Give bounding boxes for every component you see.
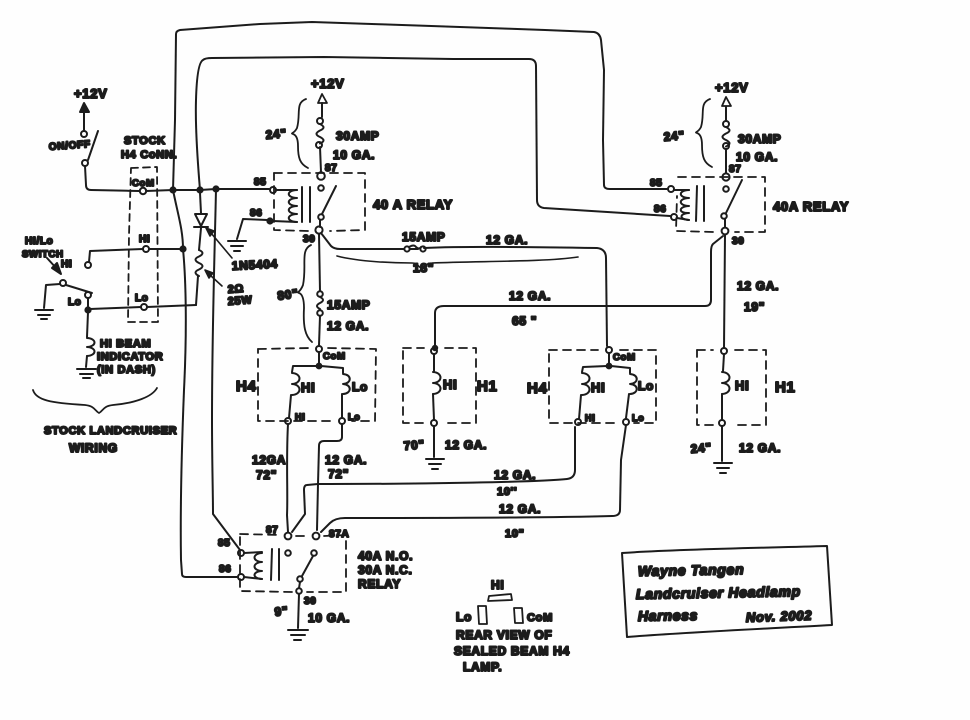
svg-text:30AMP: 30AMP xyxy=(336,129,380,143)
80in label xyxy=(276,286,299,303)
+12V supply label (middle) xyxy=(311,76,345,91)
10GA label (middle) xyxy=(333,148,375,162)
40A N.O. label xyxy=(358,549,413,563)
svg-text:Landcruiser Headlamp: Landcruiser Headlamp xyxy=(636,583,801,602)
+12V arrow (middle) xyxy=(318,94,327,117)
15AMP label (80in wire) xyxy=(327,298,371,312)
hi/lo switch label arrow xyxy=(47,258,61,274)
fuse F3 15A inline xyxy=(404,246,425,252)
12GA label (wire C) xyxy=(494,468,536,482)
svg-text:12 GA.: 12 GA. xyxy=(445,438,487,452)
H4 left HI filament xyxy=(289,366,317,418)
wire HI contact to HI terminal xyxy=(89,249,143,262)
+12V supply label (left) xyxy=(74,86,108,101)
H1 middle filament xyxy=(433,354,457,420)
30A N.C. label xyxy=(358,563,413,577)
relay K3 contacts xyxy=(285,550,317,594)
svg-text:30: 30 xyxy=(303,234,316,245)
relay K3 pin 85 xyxy=(218,538,244,556)
svg-text:85: 85 xyxy=(650,178,663,189)
ground (H1 right) xyxy=(714,463,732,473)
10GA label (K3) xyxy=(308,611,350,625)
svg-text:12GA: 12GA xyxy=(252,453,286,467)
node HI contact xyxy=(85,262,91,268)
node LO contact xyxy=(85,292,91,298)
rear view HI label xyxy=(491,578,504,592)
lamp H4 right dashed box xyxy=(549,350,656,423)
relay K2 40A dashed box xyxy=(676,177,765,232)
relay K3 core bars xyxy=(271,549,279,580)
svg-text:87: 87 xyxy=(325,163,338,174)
relay K2 coil xyxy=(674,190,689,220)
wire K3 30 to ground xyxy=(298,594,299,628)
node junction V2 xyxy=(213,186,218,191)
H4 right LO filament xyxy=(611,366,654,418)
wire 65in (right relay 30 to middle H1) xyxy=(435,236,723,347)
ground (H1 middle) xyxy=(426,459,444,469)
24in label (right) xyxy=(663,128,685,144)
svg-text:30A N.C.: 30A N.C. xyxy=(358,563,413,577)
12GA label (wire D) xyxy=(499,502,541,516)
12GA label (19in wire) xyxy=(737,279,779,293)
svg-text:+12V: +12V xyxy=(74,86,108,101)
fuse F4 15A (80in wire) xyxy=(317,291,323,316)
24in brace (middle) xyxy=(292,99,308,168)
svg-text:Lo: Lo xyxy=(135,293,149,304)
svg-text:CoM: CoM xyxy=(323,351,346,362)
relay K2 pin 30 xyxy=(722,228,745,247)
H1 label (middle) xyxy=(477,378,498,395)
relay K1 pin 86 xyxy=(250,208,273,224)
svg-text:40A RELAY: 40A RELAY xyxy=(773,199,849,214)
wire 15AMP branch (middle 30 to right H4 COM) xyxy=(321,233,607,346)
svg-text:HI: HI xyxy=(591,380,605,395)
node HI junction on V1 xyxy=(180,246,185,251)
relay K2 core bars xyxy=(696,186,704,221)
12GA label (right H1) xyxy=(739,441,781,455)
svg-text:H4: H4 xyxy=(236,378,257,395)
svg-text:87: 87 xyxy=(266,525,279,536)
svg-text:HI: HI xyxy=(491,578,504,592)
svg-text:85: 85 xyxy=(254,177,267,188)
svg-text:40A N.O.: 40A N.O. xyxy=(358,549,413,563)
wire LO junction to LO terminal and resistor xyxy=(90,307,141,309)
svg-text:12 GA.: 12 GA. xyxy=(494,468,536,482)
rear view HI blade xyxy=(488,594,512,601)
on/off label xyxy=(48,139,91,153)
relay K1 pin 85 xyxy=(254,177,276,193)
svg-text:12 GA.: 12 GA. xyxy=(499,502,541,516)
stock H4 conn label xyxy=(121,135,177,161)
svg-text:INDICATOR: INDICATOR xyxy=(97,351,163,363)
19in label xyxy=(744,300,765,314)
hi/lo switch label xyxy=(22,236,64,260)
H4 right HI filament xyxy=(579,366,607,419)
svg-text:10'': 10'' xyxy=(497,486,517,498)
fuse F2 30A (right feed) xyxy=(723,121,730,173)
H1 right filament xyxy=(722,354,749,420)
H4 label (right) xyxy=(527,380,548,397)
H1 label (right) xyxy=(775,379,796,396)
svg-text:+12V: +12V xyxy=(311,76,345,91)
svg-text:24": 24" xyxy=(265,126,287,142)
relay K3 pin 86 xyxy=(219,564,244,580)
svg-text:87A: 87A xyxy=(329,529,349,540)
wire 86 to ground (K1) xyxy=(237,219,267,239)
2ohm arrow xyxy=(205,270,222,286)
12GA label (65in wire) xyxy=(509,289,551,303)
15AMP label (inline fuse) xyxy=(402,230,446,244)
+12V supply label (right) xyxy=(715,80,749,95)
fuse F1 30A (middle feed) xyxy=(316,118,324,172)
svg-text:Harness: Harness xyxy=(638,607,698,624)
svg-text:12 GA.: 12 GA. xyxy=(739,441,781,455)
svg-text:85: 85 xyxy=(218,538,231,549)
node H4 left COM xyxy=(316,346,346,362)
rear view COM label xyxy=(527,612,553,624)
relay K1 pin 30 xyxy=(303,226,323,245)
resistor R1 2ohm 25W xyxy=(196,250,203,305)
svg-text:1N5404: 1N5404 xyxy=(231,257,278,273)
relay K2 pin 86 xyxy=(654,204,677,220)
svg-text:Lo: Lo xyxy=(632,413,644,423)
18in measure line xyxy=(337,256,578,268)
65in label xyxy=(512,314,537,328)
svg-text:STOCK LANDCRUISER: STOCK LANDCRUISER xyxy=(44,425,177,437)
svg-text:65 ": 65 " xyxy=(512,314,537,328)
wire switch pivot to ground xyxy=(44,284,60,308)
svg-text:Lo: Lo xyxy=(456,610,472,624)
wire inner loop (to right relay 86) xyxy=(196,57,670,216)
node junction inner loop / diode xyxy=(197,187,202,192)
svg-text:24": 24" xyxy=(690,440,712,456)
node H1 right bottom pin xyxy=(719,420,725,426)
title date xyxy=(746,608,813,625)
12GA label (15amp wire) xyxy=(486,233,528,247)
ground (dimmer pivot) xyxy=(35,310,53,319)
relay K1 40A dashed box xyxy=(274,173,365,231)
svg-text:CoM: CoM xyxy=(527,612,553,624)
svg-text:WIRING: WIRING xyxy=(69,441,118,455)
hi/lo dimmer switch SW2 xyxy=(60,280,92,293)
title line 1 xyxy=(638,561,745,579)
12GA label (80in wire) xyxy=(327,319,369,333)
svg-text:15AMP: 15AMP xyxy=(402,230,446,244)
relay K1 pin 87 xyxy=(317,163,337,180)
40 A RELAY label xyxy=(373,197,453,212)
svg-text:86: 86 xyxy=(219,564,232,575)
svg-text:19": 19" xyxy=(744,300,765,314)
svg-text:+12V: +12V xyxy=(715,80,749,95)
svg-text:CoM: CoM xyxy=(613,352,636,363)
svg-text:80": 80" xyxy=(276,286,299,303)
COM pin label xyxy=(132,178,155,189)
node H4 right LO pin xyxy=(623,413,644,425)
svg-text:10 GA.: 10 GA. xyxy=(308,611,350,625)
2ohm 25W label xyxy=(227,283,252,308)
svg-text:25W: 25W xyxy=(227,294,252,308)
svg-text:HI: HI xyxy=(585,413,595,423)
H4 left internal junction xyxy=(317,352,322,368)
+12V arrow (right) xyxy=(722,97,731,121)
wire K2 30 down to right H1 xyxy=(724,235,725,348)
12GA label (70in wire) xyxy=(445,438,487,452)
svg-text:15AMP: 15AMP xyxy=(327,298,371,312)
wire D (H4 right LO to 87A) xyxy=(321,425,626,532)
svg-text:H4: H4 xyxy=(527,380,548,397)
svg-text:12 GA.: 12 GA. xyxy=(327,319,369,333)
1N5404 arrow xyxy=(206,228,232,258)
svg-text:12 GA.: 12 GA. xyxy=(486,233,528,247)
lamp H4 left dashed box xyxy=(258,348,376,421)
24in brace (right) xyxy=(696,99,712,167)
RELAY label (K3) xyxy=(358,577,401,591)
LO pin label xyxy=(135,293,149,304)
stock H4 connector dashed box xyxy=(128,167,158,322)
rear view LO label xyxy=(456,610,472,624)
svg-text:40 A RELAY: 40 A RELAY xyxy=(373,197,453,212)
relay K1 coil xyxy=(273,190,297,222)
svg-text:HI: HI xyxy=(139,234,150,245)
40A RELAY label (right) xyxy=(773,199,849,214)
18in label xyxy=(413,261,434,275)
svg-text:72": 72" xyxy=(256,468,277,482)
30AMP label (middle) xyxy=(336,129,380,143)
svg-text:SWITCH: SWITCH xyxy=(22,249,64,260)
12GA label (wire B) xyxy=(325,453,367,467)
svg-text:HI: HI xyxy=(443,377,457,392)
relay K2 pin 87 xyxy=(722,164,741,181)
9in label xyxy=(274,604,289,619)
svg-text:10 GA.: 10 GA. xyxy=(736,150,778,164)
relay K3 pin 30 xyxy=(304,596,317,607)
80in brace xyxy=(298,245,312,342)
svg-text:12 GA.: 12 GA. xyxy=(509,289,551,303)
stock landcruiser wiring label xyxy=(44,425,177,455)
ground (K3) xyxy=(288,630,308,640)
relay K3 pin 87A xyxy=(313,529,350,540)
rear view LO blade xyxy=(478,606,487,624)
wire H1 middle to ground xyxy=(433,426,435,457)
72in label (wire B) xyxy=(328,467,349,481)
node H1 right COM xyxy=(721,348,727,354)
wire V1 (HI signal down to bottom relay 86) xyxy=(173,190,237,577)
svg-text:72": 72" xyxy=(328,467,349,481)
wire A (H4 left HI down to 87) xyxy=(287,424,288,532)
svg-text:LAMP.: LAMP. xyxy=(463,660,502,674)
wire switch to COM xyxy=(85,166,139,191)
svg-text:SEALED BEAM H4: SEALED BEAM H4 xyxy=(454,644,570,658)
svg-text:Wayne Tangen: Wayne Tangen xyxy=(638,561,745,579)
svg-text:24": 24" xyxy=(663,128,685,144)
svg-text:CoM: CoM xyxy=(132,178,155,189)
1N5404 label xyxy=(231,257,278,273)
wire COM to relay 85 xyxy=(146,189,269,191)
relay K3 coil xyxy=(244,552,262,579)
hi beam indicator label xyxy=(97,338,163,376)
node LO terminal xyxy=(141,304,147,310)
10in label (wire C) xyxy=(497,486,517,498)
10in label (wire D) xyxy=(505,528,525,540)
wire outer loop (COM up over top to right relay 85) xyxy=(173,22,667,190)
svg-text:Lo: Lo xyxy=(68,297,82,308)
svg-text:(IN DASH): (IN DASH) xyxy=(97,364,156,376)
wire 80in (middle 30 down to H4 COM) xyxy=(319,234,320,345)
svg-text:HI: HI xyxy=(295,412,305,422)
node H4 right COM xyxy=(606,347,636,363)
svg-text:HI: HI xyxy=(301,380,315,395)
svg-text:HI: HI xyxy=(735,378,749,393)
lamp H1 right dashed box xyxy=(697,350,766,425)
wire LO contact down to junction xyxy=(87,298,89,309)
svg-text:Lo: Lo xyxy=(352,380,368,394)
H4 label (left) xyxy=(236,378,257,395)
svg-text:HI BEAM: HI BEAM xyxy=(100,338,151,350)
svg-text:Nov. 2002: Nov. 2002 xyxy=(746,608,813,625)
svg-text:30: 30 xyxy=(732,236,745,247)
title line 2 xyxy=(636,583,801,602)
svg-text:10 GA.: 10 GA. xyxy=(333,148,375,162)
72in label (wire A) xyxy=(256,468,277,482)
node junction outer loop xyxy=(170,187,175,192)
svg-text:12 GA.: 12 GA. xyxy=(737,279,779,293)
relay K1 core bars xyxy=(302,187,310,222)
node LO junction xyxy=(85,307,90,312)
svg-text:10": 10" xyxy=(505,528,525,540)
30AMP label (right) xyxy=(738,132,782,146)
relay K2 switch arm xyxy=(721,180,742,227)
svg-text:87: 87 xyxy=(729,164,742,175)
stock wiring brace xyxy=(33,388,157,413)
rear view COM blade xyxy=(514,608,523,623)
title line 3 xyxy=(638,607,698,624)
svg-text:HI/Lo: HI/Lo xyxy=(25,236,54,247)
svg-text:STOCK: STOCK xyxy=(124,135,166,147)
relay K3 pin 87 xyxy=(266,525,291,539)
relay K3 dashed box xyxy=(240,534,346,592)
H4 left LO filament xyxy=(321,366,368,418)
svg-text:86: 86 xyxy=(654,204,667,215)
svg-text:H1: H1 xyxy=(477,378,498,395)
node H4 left HI pin xyxy=(285,412,305,424)
node H4 left LO pin xyxy=(339,412,360,424)
rear view caption xyxy=(454,628,570,674)
title box border xyxy=(622,546,832,637)
svg-text:30AMP: 30AMP xyxy=(738,132,782,146)
wire C (crossover to H4 right HI) xyxy=(292,427,575,532)
HI contact label xyxy=(61,259,72,270)
relay K1 switch arm xyxy=(318,185,336,227)
H4 right internal junction xyxy=(607,353,612,368)
svg-text:70": 70" xyxy=(403,437,425,453)
on/off switch SW1 xyxy=(81,131,98,166)
wire B (H4 left LO down to 87A) xyxy=(317,424,342,530)
svg-text:Lo: Lo xyxy=(348,412,360,422)
HI pin label xyxy=(139,234,150,245)
24in label (middle) xyxy=(265,126,287,142)
+12V arrow (left) xyxy=(80,103,89,130)
node HI terminal xyxy=(143,246,149,252)
svg-text:H4 CoNN.: H4 CoNN. xyxy=(121,149,177,161)
wire LO terminal to resistor chain xyxy=(147,305,196,307)
24in label (right H1) xyxy=(690,440,712,456)
node H1 middle bottom pin xyxy=(431,420,437,426)
svg-text:H1: H1 xyxy=(775,379,796,396)
12GA label (wire A) xyxy=(252,453,286,467)
svg-text:12 GA.: 12 GA. xyxy=(325,453,367,467)
ground (hi beam indicator) xyxy=(77,369,96,378)
relay K2 pin 85 xyxy=(650,178,674,192)
svg-text:Lo: Lo xyxy=(638,379,654,393)
svg-text:HI: HI xyxy=(61,259,72,270)
LO contact label xyxy=(68,297,82,308)
hi beam indicator lamp xyxy=(86,312,95,367)
lamp H1 middle dashed box xyxy=(403,348,476,423)
svg-text:9": 9" xyxy=(274,604,289,619)
svg-text:18": 18" xyxy=(413,261,434,275)
node H4 right HI pin xyxy=(575,413,595,425)
ground (K1 86) xyxy=(228,241,246,251)
diode D1 1N5404 xyxy=(194,193,208,250)
svg-text:REAR VIEW OF: REAR VIEW OF xyxy=(456,628,552,642)
svg-text:86: 86 xyxy=(250,208,263,219)
svg-text:RELAY: RELAY xyxy=(358,577,401,591)
svg-text:30: 30 xyxy=(304,596,317,607)
wire H1 right to ground xyxy=(721,426,723,461)
wire V2 (COM down to bottom relay 85) xyxy=(212,189,240,550)
node COM terminal xyxy=(140,188,146,194)
node H1 middle COM xyxy=(431,346,437,354)
70in label xyxy=(403,437,425,453)
wire HI terminal to V1 junction xyxy=(149,248,183,250)
10GA label (right) xyxy=(736,150,778,164)
